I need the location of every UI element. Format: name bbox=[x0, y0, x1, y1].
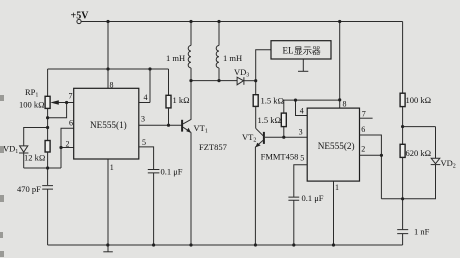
svg-text:1.5 kΩ: 1.5 kΩ bbox=[258, 115, 282, 125]
svg-text:1: 1 bbox=[110, 163, 114, 172]
svg-text:5: 5 bbox=[142, 138, 146, 147]
svg-text:8: 8 bbox=[110, 80, 114, 89]
svg-text:470 pF: 470 pF bbox=[17, 184, 41, 194]
svg-text:8: 8 bbox=[343, 99, 347, 108]
svg-text:NE555(1): NE555(1) bbox=[90, 120, 127, 130]
svg-text:NE555(2): NE555(2) bbox=[318, 141, 355, 151]
svg-text:4: 4 bbox=[300, 107, 304, 116]
svg-text:5: 5 bbox=[300, 154, 304, 163]
svg-text:2: 2 bbox=[66, 140, 70, 149]
svg-text:1 kΩ: 1 kΩ bbox=[173, 95, 190, 105]
svg-text:12 kΩ: 12 kΩ bbox=[24, 152, 45, 162]
svg-text:3: 3 bbox=[299, 128, 303, 137]
svg-text:+5V: +5V bbox=[71, 10, 90, 21]
svg-text:1 mH: 1 mH bbox=[166, 53, 185, 63]
svg-text:7: 7 bbox=[69, 91, 73, 100]
svg-text:7: 7 bbox=[362, 109, 366, 118]
svg-text:2: 2 bbox=[361, 145, 365, 154]
svg-text:1 mH: 1 mH bbox=[223, 53, 242, 63]
svg-text:FMMT458: FMMT458 bbox=[261, 152, 299, 162]
svg-text:0.1 μF: 0.1 μF bbox=[302, 193, 324, 203]
svg-text:1.5 kΩ: 1.5 kΩ bbox=[261, 96, 285, 106]
svg-text:FZT857: FZT857 bbox=[199, 142, 227, 152]
svg-text:620 kΩ: 620 kΩ bbox=[406, 148, 432, 158]
svg-text:100 kΩ: 100 kΩ bbox=[19, 100, 45, 110]
svg-text:1: 1 bbox=[335, 183, 339, 192]
svg-text:0.1 μF: 0.1 μF bbox=[161, 167, 183, 177]
svg-text:3: 3 bbox=[141, 115, 145, 124]
svg-text:1 nF: 1 nF bbox=[414, 227, 430, 237]
svg-text:4: 4 bbox=[144, 93, 148, 102]
svg-text:100 kΩ: 100 kΩ bbox=[406, 95, 432, 105]
svg-text:EL: EL bbox=[283, 46, 294, 56]
svg-text:6: 6 bbox=[361, 125, 365, 134]
svg-text:6: 6 bbox=[69, 119, 73, 128]
